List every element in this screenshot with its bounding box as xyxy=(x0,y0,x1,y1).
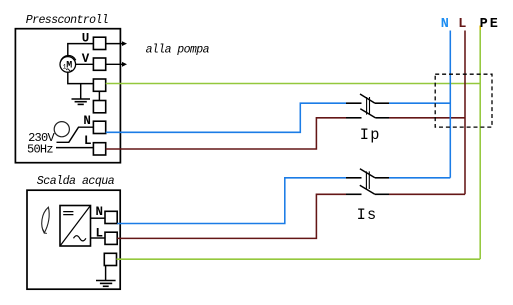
terminal U xyxy=(82,32,106,50)
flame icon xyxy=(42,207,49,233)
wire heater to N xyxy=(91,217,106,219)
label Scalda acqua title xyxy=(37,175,115,188)
ground Pressocontroll xyxy=(72,84,91,105)
svg-text:L: L xyxy=(96,227,104,241)
svg-text:Ip: Ip xyxy=(360,126,380,144)
svg-text:1: 1 xyxy=(63,64,67,71)
label N rail xyxy=(441,17,449,32)
junction box dashed xyxy=(435,74,492,127)
wire heater to L xyxy=(91,237,106,239)
switch blade 230V to N xyxy=(57,127,94,142)
wire switch Is to N rail blue xyxy=(389,177,450,179)
wire PE Scalda to PE rail green xyxy=(117,258,481,260)
wire PE terminal to spare terminal xyxy=(98,91,100,100)
motor U1 M 1~ xyxy=(60,55,76,72)
wire L Scalda to switch Is brown xyxy=(117,194,346,238)
enclosure Pressocontroll xyxy=(15,29,120,163)
wire switch Ip to L rail brown xyxy=(389,117,465,119)
ground Scalda xyxy=(96,266,116,287)
rail N blue xyxy=(449,31,451,178)
terminal PE Scalda xyxy=(104,253,116,265)
svg-text:L: L xyxy=(458,17,466,32)
spare terminal xyxy=(93,101,105,113)
terminal N Scalda xyxy=(96,205,118,224)
svg-text:N: N xyxy=(441,17,449,32)
wire N Pressocontroll to switch Ip blue xyxy=(106,103,346,132)
svg-text:V: V xyxy=(82,52,90,66)
svg-text:PE: PE xyxy=(480,17,498,32)
svg-text:L: L xyxy=(84,134,92,148)
rail PE green xyxy=(479,26,481,260)
heater converter symbol xyxy=(60,206,91,247)
label 50Hz xyxy=(27,143,54,157)
terminal L Scalda xyxy=(96,227,118,245)
wire L Pressocontroll to switch Ip brown xyxy=(106,118,346,149)
label alla pompa xyxy=(146,44,210,57)
label PE rail xyxy=(480,17,498,32)
switch Is xyxy=(346,169,389,195)
svg-text:alla pompa: alla pompa xyxy=(146,44,210,57)
terminal L Pressocontroll xyxy=(84,134,106,155)
svg-text:N: N xyxy=(96,205,104,219)
svg-text:N: N xyxy=(83,114,91,128)
label 230V xyxy=(28,131,55,145)
wire PE Pressocontroll to PE rail green xyxy=(106,83,481,85)
wire U to motor xyxy=(68,44,94,57)
wire switch Is to L rail brown xyxy=(389,193,465,195)
label Ip xyxy=(360,126,380,144)
wire N Scalda to switch Is blue xyxy=(117,178,346,224)
arrow V alla pompa xyxy=(106,62,127,67)
wire motor to V xyxy=(76,63,94,65)
wire motor to PE terminal xyxy=(68,72,94,83)
wire 50Hz to L xyxy=(56,147,93,149)
supply circle 230V xyxy=(54,122,69,137)
enclosure Scalda acqua xyxy=(27,190,120,289)
label Is xyxy=(357,206,377,224)
svg-text:50Hz: 50Hz xyxy=(27,143,54,157)
wire switch Ip to N rail blue xyxy=(389,102,450,104)
label L rail xyxy=(458,17,466,32)
svg-text:Is: Is xyxy=(357,206,377,224)
switch Ip xyxy=(346,94,389,118)
terminal PE Pressocontroll xyxy=(93,79,105,91)
arrow U alla pompa xyxy=(106,41,127,46)
svg-text:Presscontroll: Presscontroll xyxy=(26,14,109,27)
rail L brown xyxy=(464,31,466,195)
svg-text:Scalda acqua: Scalda acqua xyxy=(37,175,115,188)
label Presscontroll title xyxy=(26,14,109,27)
terminal N Pressocontroll xyxy=(83,114,105,134)
terminal V xyxy=(82,52,106,70)
